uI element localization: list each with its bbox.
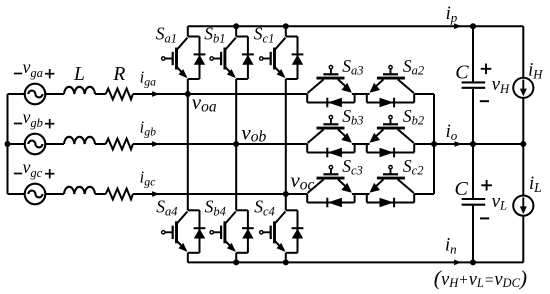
svg-text:L: L (73, 64, 85, 85)
svg-text:C: C (455, 178, 469, 200)
svg-text:R: R (112, 64, 125, 85)
svg-text:C: C (455, 62, 469, 84)
